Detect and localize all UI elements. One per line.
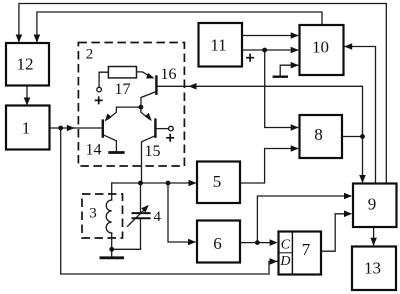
svg-text:7: 7	[302, 240, 311, 259]
svg-text:14: 14	[86, 142, 102, 159]
svg-text:D: D	[279, 254, 290, 269]
svg-text:10: 10	[312, 38, 329, 57]
svg-text:2: 2	[86, 47, 94, 63]
svg-text:3: 3	[89, 206, 97, 222]
svg-text:1: 1	[22, 119, 31, 138]
svg-text:6: 6	[213, 234, 222, 253]
svg-text:15: 15	[145, 143, 161, 160]
svg-text:4: 4	[154, 209, 162, 225]
svg-text:5: 5	[213, 172, 222, 191]
svg-text:17: 17	[115, 81, 131, 98]
svg-text:11: 11	[210, 36, 226, 55]
svg-text:16: 16	[161, 66, 177, 83]
svg-text:13: 13	[364, 259, 381, 278]
svg-text:8: 8	[314, 125, 323, 144]
svg-text:9: 9	[368, 195, 377, 214]
svg-text:12: 12	[17, 55, 34, 74]
svg-text:C: C	[281, 237, 291, 252]
